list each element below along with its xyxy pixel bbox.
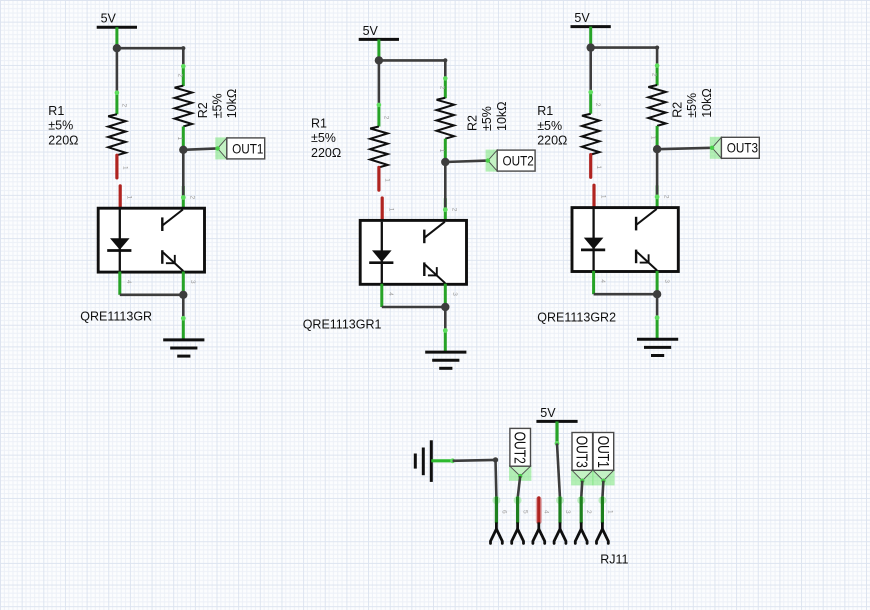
svg-text:1: 1	[599, 195, 606, 199]
svg-text:6: 6	[500, 510, 507, 514]
wire pin4 to pin3 node	[382, 306, 446, 309]
net label OUT2 (block 2)	[486, 150, 536, 172]
net label OUT3 (block 3)	[710, 137, 760, 159]
wire J2 to optocoupler pin 2	[181, 150, 196, 209]
optocoupler pin 3 (emitter)	[445, 284, 458, 307]
resistor R2 (block 2)	[437, 76, 454, 162]
svg-text:5: 5	[522, 510, 529, 514]
power symbol 5V (block 1)	[97, 12, 137, 28]
svg-text:1: 1	[650, 136, 657, 140]
svg-text:2: 2	[451, 208, 458, 212]
svg-text:2: 2	[585, 510, 592, 514]
optocoupler pin 3 (emitter)	[657, 271, 670, 294]
wire down to R2	[444, 60, 447, 78]
svg-text:1: 1	[606, 510, 613, 514]
net label OUT1 (block 1)	[215, 137, 264, 159]
optocoupler QRE1113GR pin 1 (anode, red)	[120, 186, 132, 209]
wire to net label OUT1	[183, 148, 217, 149]
svg-text:QRE1113GR1: QRE1113GR1	[303, 318, 382, 332]
svg-text:2: 2	[120, 104, 127, 108]
connector RJ11 pin 1	[597, 496, 614, 543]
svg-text:OUT3: OUT3	[573, 436, 591, 468]
svg-text:2: 2	[439, 86, 446, 90]
power symbol 5V (block 3)	[571, 11, 611, 27]
wire OUT3 to RJ11 pin	[581, 481, 582, 499]
optocoupler QRE1113GR2 (block 3)	[572, 208, 678, 272]
svg-text:1: 1	[176, 137, 183, 141]
svg-text:5V: 5V	[574, 11, 590, 25]
wire OUT1 to RJ11 pin	[602, 481, 603, 499]
node junction J3 (block 2)	[441, 303, 449, 311]
svg-text:5V: 5V	[101, 12, 117, 26]
node junction J2 / OUT3 net (block 3)	[653, 145, 661, 153]
wire J3 to ground	[443, 307, 448, 352]
net label OUT2 (RJ11)	[509, 428, 531, 480]
wire J1 to R1	[378, 60, 381, 105]
connector RJ11 pin 3	[554, 496, 571, 543]
ground (block 2)	[425, 352, 466, 368]
svg-text:4: 4	[599, 279, 606, 283]
wire to net label OUT2	[445, 161, 488, 162]
ground (block 1)	[163, 340, 204, 356]
power symbol 5V (RJ11)	[536, 406, 577, 421]
node junction J1 (block 2)	[375, 56, 383, 64]
svg-text:1: 1	[121, 166, 128, 170]
connector RJ11 pin 4	[533, 498, 550, 544]
optocoupler pin 4 (cathode)	[120, 272, 132, 295]
wire J3 to ground	[181, 295, 186, 340]
wire pin4 to pin3 node	[594, 293, 658, 296]
svg-text:RJ11: RJ11	[600, 552, 628, 566]
resistor R1 (block 3)	[582, 90, 602, 178]
wire J2 to optocoupler pin 2	[655, 149, 670, 208]
connector RJ11 pin 6	[491, 496, 508, 543]
wire OUT2 to RJ11 pin	[518, 476, 521, 498]
wire J2 to optocoupler pin 2	[443, 162, 458, 221]
svg-text:QRE1113GR2: QRE1113GR2	[537, 310, 616, 324]
svg-text:4: 4	[387, 292, 394, 296]
wire horizontal to R2	[379, 58, 448, 62]
svg-text:3: 3	[564, 510, 571, 514]
node junction J1 (block 3)	[587, 43, 595, 51]
svg-text:3: 3	[663, 279, 670, 283]
optocoupler QRE1113GR1 pin 1 (anode, red)	[382, 198, 394, 221]
node junction J2 / OUT2 net (block 2)	[441, 158, 449, 166]
svg-text:3: 3	[189, 280, 196, 284]
svg-text:1: 1	[126, 196, 133, 200]
wire 5V pin	[377, 39, 380, 60]
svg-text:4: 4	[543, 510, 550, 514]
svg-text:2: 2	[177, 74, 184, 78]
wire ground to corner node	[431, 458, 495, 463]
svg-text:OUT1: OUT1	[594, 436, 612, 468]
svg-text:4: 4	[125, 280, 132, 284]
resistor R1 (block 2)	[370, 103, 390, 191]
resistor R1 (block 1)	[108, 90, 128, 178]
svg-text:1: 1	[383, 178, 390, 182]
wire down to R2	[656, 48, 659, 66]
svg-text:OUT1: OUT1	[232, 142, 263, 157]
wire 5V pin	[115, 27, 118, 48]
net label OUT1 (RJ11)	[592, 433, 614, 486]
svg-text:OUT3: OUT3	[727, 141, 758, 156]
node corner	[493, 457, 498, 462]
wire 5V pin	[589, 27, 592, 48]
power symbol 5V (block 2)	[359, 24, 399, 40]
svg-text:1: 1	[388, 208, 395, 212]
svg-text:QRE1113GR: QRE1113GR	[80, 310, 152, 324]
wire J3 to ground	[655, 294, 660, 339]
resistor R2 (block 1)	[175, 64, 192, 150]
wire 5V to RJ11 pin 3	[555, 421, 560, 498]
svg-text:OUT2: OUT2	[511, 432, 529, 464]
wire corner to RJ11 pin 6	[494, 460, 497, 499]
connector RJ11 pin 2	[575, 496, 592, 543]
node junction J2 / OUT1 net (block 1)	[179, 146, 187, 154]
svg-text:3: 3	[451, 292, 458, 296]
svg-text:2: 2	[594, 103, 601, 107]
wire J1 to R1	[589, 48, 592, 93]
wire to net label OUT3	[657, 148, 712, 149]
svg-text:1: 1	[595, 165, 602, 169]
node junction J3 (block 1)	[179, 291, 187, 299]
ground (block 3)	[637, 339, 678, 355]
svg-text:2: 2	[663, 195, 670, 199]
wire J1 to R1	[116, 48, 119, 93]
node junction J1 (block 1)	[113, 44, 121, 52]
optocoupler pin 3 (emitter)	[183, 272, 196, 295]
optocoupler QRE1113GR (block 1)	[98, 208, 204, 272]
optocoupler pin 4 (cathode)	[382, 284, 394, 307]
svg-text:2: 2	[189, 196, 196, 200]
svg-text:5V: 5V	[540, 406, 556, 420]
connector RJ11 pin 5	[512, 496, 529, 543]
wire pin4 to pin3 node	[120, 293, 184, 296]
svg-text:1: 1	[438, 149, 445, 153]
node junction J3 (block 3)	[653, 290, 661, 298]
svg-text:5V: 5V	[363, 24, 379, 38]
svg-text:2: 2	[650, 73, 657, 77]
net label OUT3 (RJ11)	[571, 433, 593, 486]
svg-text:2: 2	[382, 116, 389, 120]
optocoupler QRE1113GR1 (block 2)	[360, 220, 466, 284]
ground (RJ11, rotated)	[415, 440, 431, 482]
svg-text:OUT2: OUT2	[503, 154, 534, 169]
wire horizontal to R2	[117, 46, 185, 50]
optocoupler QRE1113GR2 pin 1 (anode, red)	[594, 185, 606, 208]
optocoupler pin 4 (cathode)	[594, 271, 606, 294]
wire down to R2	[182, 48, 185, 66]
wire horizontal to R2	[591, 46, 660, 50]
resistor R2 (block 3)	[648, 63, 665, 149]
